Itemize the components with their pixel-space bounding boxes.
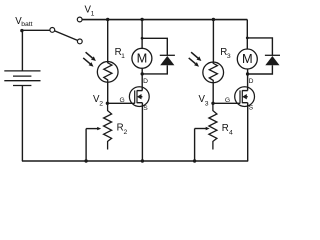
light arrow 1 into R3	[191, 52, 201, 61]
node diode D1 split	[141, 37, 144, 40]
wire battery bottom to rail	[21, 86, 23, 162]
node Q1 source rail junction	[141, 159, 144, 162]
wire rail to R3	[212, 20, 214, 63]
wire diode D1 bottom	[142, 65, 167, 74]
switch blade	[55, 31, 78, 41]
node R4 wiper to rail	[193, 159, 196, 162]
node junction top rail R1	[106, 18, 109, 21]
wire bottom rail	[22, 160, 248, 162]
light arrow 1 into R1	[86, 52, 96, 61]
motor M1	[132, 48, 152, 68]
photoresistor R1	[97, 62, 118, 83]
wire top rail	[82, 19, 247, 21]
label R_1	[115, 47, 126, 60]
node junction top rail M1	[140, 18, 143, 21]
node M2 bottom junction	[246, 72, 249, 75]
wire gate Q1	[107, 102, 134, 104]
node diode D2 split	[246, 37, 249, 40]
node R2 wiper to rail	[84, 159, 87, 162]
diode D1	[160, 55, 175, 65]
svg-text:batt: batt	[21, 21, 32, 28]
svg-text:S: S	[143, 105, 148, 112]
label V_2	[93, 94, 103, 107]
wire rail to motor M1	[141, 20, 143, 49]
switch terminal B	[77, 39, 82, 44]
label V_1	[85, 5, 95, 18]
wire gate Q2	[213, 102, 240, 104]
node V_3	[211, 102, 214, 105]
wire rail to R1	[107, 20, 109, 62]
node Vbatt junction	[20, 29, 23, 32]
transistor Q1	[129, 87, 149, 107]
svg-text:S: S	[249, 105, 254, 112]
svg-text:D: D	[249, 78, 254, 85]
svg-text:1: 1	[121, 53, 125, 60]
resistor R2 (with wire from V2)	[104, 103, 112, 149]
switch terminal A	[50, 28, 55, 33]
wire R3 to node V3	[212, 83, 214, 104]
svg-text:D: D	[143, 78, 148, 85]
battery V_batt	[4, 71, 40, 86]
label V_batt	[15, 16, 32, 28]
wiper arrow R4	[195, 127, 210, 161]
svg-text:M: M	[242, 51, 253, 66]
label R_4	[222, 123, 233, 136]
diode D2	[265, 55, 280, 65]
light arrow 2 into R3	[189, 58, 199, 67]
resistor R4 (with wire from V3)	[209, 103, 217, 149]
wire Q2 source to rail corner	[247, 103, 249, 161]
svg-text:M: M	[137, 50, 148, 65]
wire diode D2 top	[247, 38, 272, 55]
label R_2	[117, 123, 128, 136]
node M1 bottom junction	[141, 72, 144, 75]
motor M2	[237, 49, 257, 69]
svg-text:G: G	[120, 97, 125, 104]
svg-text:2: 2	[124, 129, 128, 136]
light arrow 2 into R1	[83, 58, 93, 67]
svg-text:R: R	[222, 123, 229, 134]
svg-text:1: 1	[91, 11, 95, 18]
node V_2	[106, 102, 109, 105]
wire rail corner to motor M2	[246, 20, 248, 50]
wire motor M1 to Q1 drain	[141, 68, 143, 90]
wire motor M2 to Q2 drain	[247, 69, 249, 91]
svg-text:3: 3	[227, 53, 231, 60]
wire R1 to node V2	[107, 82, 109, 103]
wire Vbatt node to switch	[22, 29, 50, 31]
photoresistor R3	[203, 62, 224, 83]
node junction top rail R3	[212, 18, 215, 21]
wire Q1 source to rail	[141, 103, 143, 161]
wire diode D1 top	[142, 38, 167, 55]
label V_3	[199, 94, 209, 107]
label R_3	[220, 47, 231, 60]
wiper arrow R2	[86, 127, 101, 161]
svg-text:3: 3	[205, 100, 209, 107]
wire diode D2 bottom	[248, 65, 273, 74]
svg-text:2: 2	[99, 100, 103, 107]
svg-text:4: 4	[229, 129, 233, 136]
terminal V_1	[77, 17, 82, 22]
transistor Q2	[235, 87, 255, 107]
wire battery top	[21, 31, 23, 71]
svg-text:G: G	[225, 97, 230, 104]
